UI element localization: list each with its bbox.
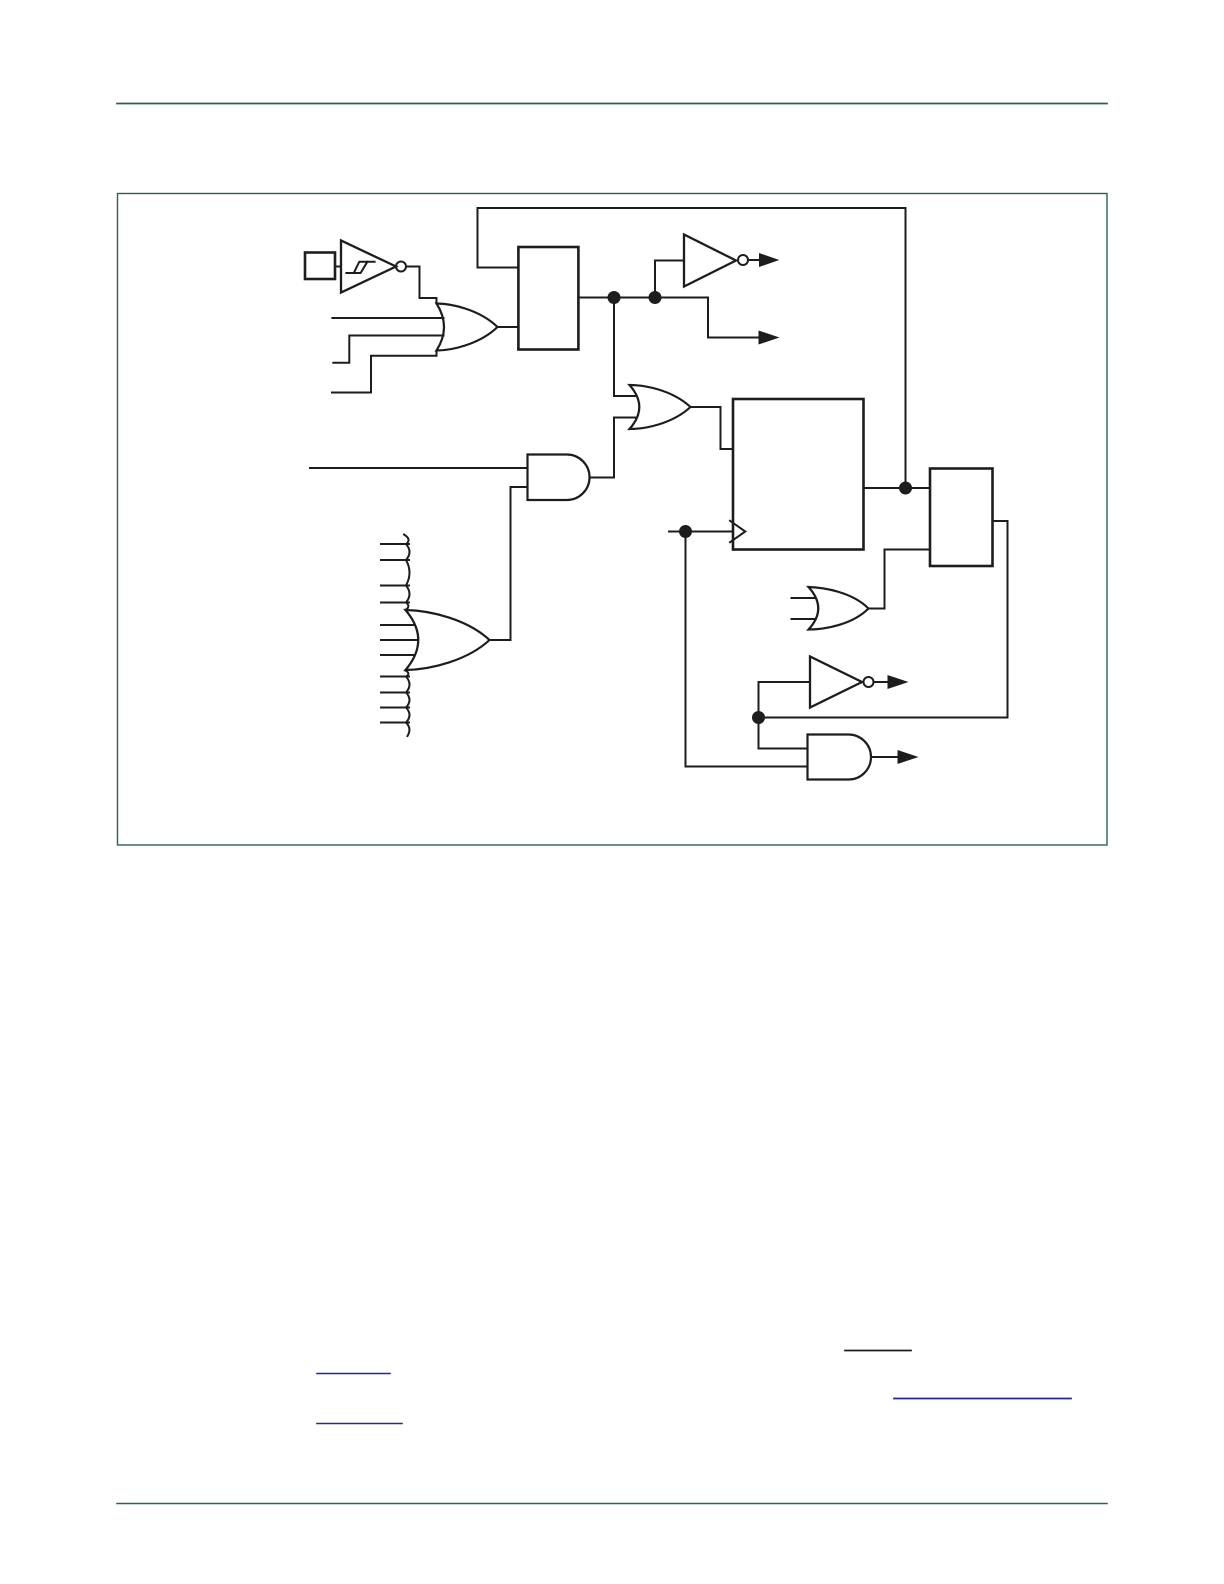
node J5 [752, 711, 765, 724]
OR4 input extension line bottom [406, 671, 410, 737]
reference overline [845, 1350, 911, 1352]
wire clock stub [669, 531, 733, 533]
hyperlink underline 2 [894, 1398, 1071, 1400]
arrow output 2 [759, 331, 780, 345]
wire OR4 stub 7 [381, 654, 415, 656]
wire feedback loop [478, 208, 906, 488]
wire schmitt to OR1 [406, 267, 437, 304]
hysteresis symbol [346, 262, 374, 273]
wire OR1 input 2 [332, 317, 443, 319]
wire node J1 to OR2 [614, 298, 636, 397]
arrow output 1 [759, 253, 779, 267]
bubble on inverter U3 [864, 677, 874, 687]
node J3 [679, 525, 692, 538]
or-gate OR3 [809, 587, 869, 630]
wire OR3 output to flipflop [869, 550, 930, 609]
wire AND1 output to OR2 [590, 418, 637, 478]
wire node J5 to inverter U3 [759, 682, 811, 718]
wire counter output [864, 487, 931, 489]
wire node J3 to AND2 [686, 532, 808, 767]
wire U3 to arrow [874, 681, 889, 683]
node J2 [649, 291, 662, 304]
clock chevron [730, 521, 745, 542]
or-gate OR4 [406, 610, 490, 670]
block counter [733, 399, 864, 550]
wire node J2 to inverter U2 [655, 261, 684, 298]
node J1 [608, 291, 621, 304]
wire flipflop output loop [759, 521, 1008, 718]
figure frame [118, 194, 1108, 846]
wire OR3 input 1 [792, 597, 816, 599]
bubble on inverter U2 [738, 255, 748, 265]
wire OR3 input 2 [792, 618, 816, 620]
block flipflop [930, 469, 993, 567]
footer rule [117, 1503, 1107, 1505]
arrow output 4 [898, 750, 919, 764]
wire OR4 stub 11 [381, 722, 409, 724]
or-gate OR1 [437, 304, 498, 351]
wire OR1 input 4 [332, 351, 437, 393]
or-gate OR2 [630, 385, 691, 429]
wire OR4 stub 10 [381, 707, 409, 709]
wire OR1 input 3 [333, 336, 443, 363]
OR4 input extension line top [404, 535, 410, 611]
hyperlink underline 3 [317, 1423, 402, 1425]
inverter U2 [684, 235, 736, 287]
block oscillator [518, 247, 578, 350]
wire AND2 output [871, 756, 898, 758]
wire AND1 input 1 [310, 467, 528, 469]
wire OR4 stub 8 [381, 676, 409, 678]
hyperlink underline 1 [317, 1373, 390, 1375]
and-gate AND2 [808, 735, 872, 780]
wire OR4 stub 6 [381, 639, 417, 641]
node J4 [899, 482, 912, 495]
wire OR1 output [498, 326, 519, 328]
input pad square [305, 253, 335, 280]
wire node J5 to AND2 input 1 [759, 718, 808, 749]
wire pad to schmitt [335, 266, 341, 268]
wire OR4 stub 5 [381, 624, 415, 626]
wire OR4 stub 9 [381, 692, 409, 694]
wire oscillator output [578, 298, 758, 338]
wire OR4 stub 1 [381, 543, 409, 545]
header rule [117, 103, 1107, 105]
wire OR4 output to AND1 input 2 [490, 487, 528, 640]
bubble on schmitt output [396, 262, 406, 272]
wire OR4 stub 2 [381, 559, 409, 561]
wire U2 to arrow [748, 259, 760, 261]
arrow output 3 [888, 675, 909, 689]
wire OR4 stub 3 [381, 585, 409, 587]
wire OR2 output [691, 407, 734, 449]
inverter U3 [810, 657, 862, 708]
and-gate AND1 [528, 455, 590, 501]
wire OR4 stub 4 [381, 602, 409, 604]
schmitt trigger U1 [341, 241, 396, 293]
